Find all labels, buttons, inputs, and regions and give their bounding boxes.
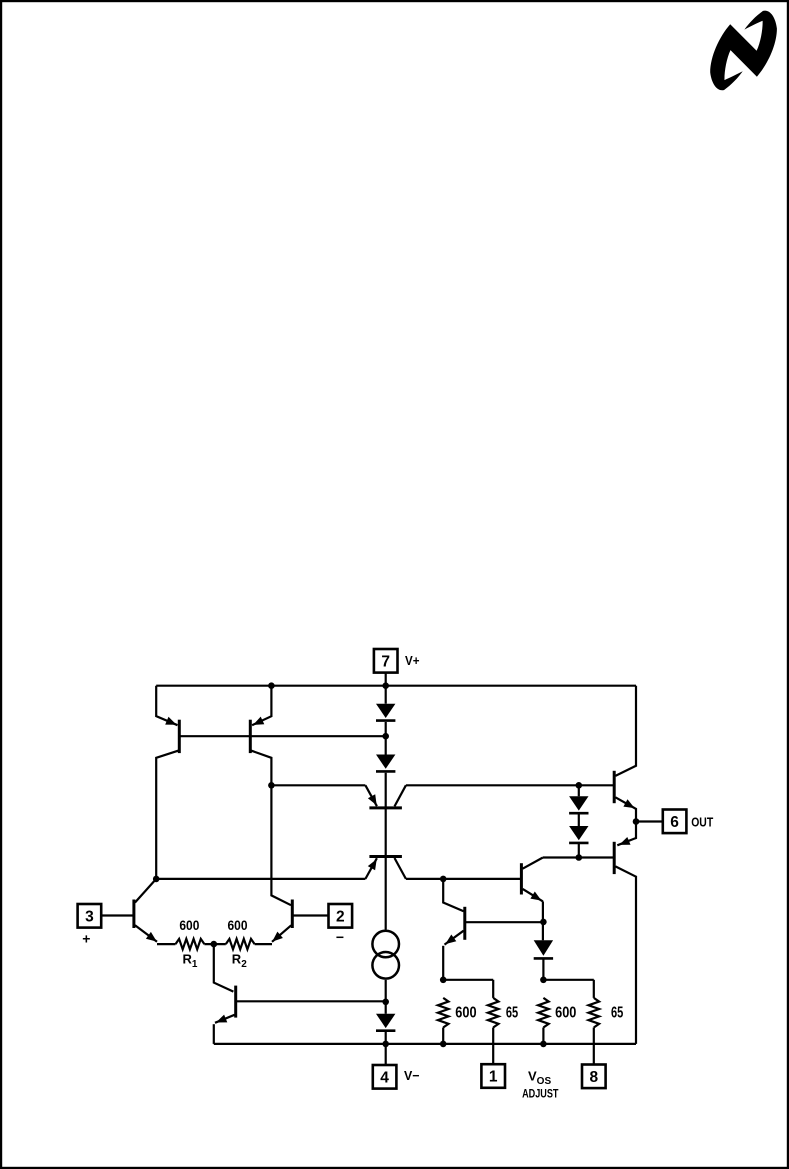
wire R6 through rail to pin 8 <box>593 1028 595 1065</box>
node D6 bottom / base wire <box>576 854 583 861</box>
diode D5 <box>569 796 588 810</box>
wire node to R4 top <box>443 979 493 981</box>
node Q8 collector junction <box>440 876 447 883</box>
svg-text:4: 4 <box>380 1069 389 1086</box>
wire Q9 base to current source node <box>237 1000 386 1002</box>
svg-text:VOS: VOS <box>528 1069 551 1088</box>
wire R4 through rail to pin 1 <box>492 1028 494 1065</box>
current source I1 (two circles) <box>372 931 399 958</box>
transistor Q8 (NPN, faces left) <box>463 907 466 940</box>
node Q2 collector / Q5 emitter wire <box>268 782 275 789</box>
wire D1 to node <box>385 722 387 755</box>
wire tap down to Q9 <box>214 944 234 992</box>
pin 4 box (V-) <box>373 1065 397 1089</box>
svg-text:2: 2 <box>336 908 345 925</box>
transistor Q7 (driver NPN) <box>520 863 523 894</box>
pin 6 box (OUT) <box>663 810 687 834</box>
diode D2 <box>376 755 395 769</box>
node diode D5 top <box>576 782 583 789</box>
transistor Q1 (left PNP current mirror) <box>178 720 181 753</box>
svg-text:600: 600 <box>179 917 199 933</box>
svg-text:+: + <box>82 931 90 947</box>
svg-text:65: 65 <box>611 1005 623 1022</box>
transistor Q10 (output NPN) <box>613 771 616 803</box>
svg-text:V+: V+ <box>405 653 420 668</box>
node R5 / rail <box>540 1041 547 1048</box>
node Q9 base / D3 anode <box>382 999 389 1006</box>
wire current source to node <box>385 980 387 1014</box>
wire Q4 base to pin 2 <box>292 914 328 916</box>
wire D6 to node <box>578 844 580 858</box>
transistor Q11 (output PNP) <box>613 842 616 874</box>
wire output node to pin 6 <box>636 820 663 822</box>
wire Q6 collector to Q7 base <box>406 878 520 880</box>
transistor Q6 (bottom middle PNP) <box>369 855 402 858</box>
svg-text:65: 65 <box>506 1005 518 1022</box>
svg-text:600: 600 <box>555 1005 576 1022</box>
wire node to R6 top <box>543 979 593 981</box>
wire D5 to D6 <box>578 814 580 826</box>
svg-text:8: 8 <box>589 1069 598 1086</box>
node D1-D2 / base wire junction <box>382 733 389 740</box>
wire rail to pin 4 <box>385 1044 387 1065</box>
svg-text:V−: V− <box>404 1068 420 1083</box>
wire pin3 to Q3 base <box>101 914 134 916</box>
transistor Q9 (level shift NPN, faces left) <box>234 986 237 1018</box>
svg-text:1: 1 <box>489 1069 498 1086</box>
diode D4 <box>534 940 553 956</box>
wire R2 to Q4 emitter <box>255 943 272 945</box>
node Q8 emitter / R3 top <box>440 977 447 984</box>
transistor Q5 (top middle PNP) <box>369 806 402 809</box>
wire D5 anode to node <box>578 785 580 796</box>
node Q1 collector / Q3 collector <box>153 876 160 883</box>
resistor R5 600 <box>538 998 549 1028</box>
node junction pin7/top-rail <box>382 682 389 689</box>
svg-text:ADJUST: ADJUST <box>522 1089 558 1101</box>
svg-text:OUT: OUT <box>691 815 713 830</box>
wire Q5 emitter line <box>271 784 365 786</box>
svg-text:−: − <box>336 929 344 945</box>
resistor R2 600 <box>226 939 255 949</box>
National Semiconductor logo <box>710 11 777 91</box>
node R3 / rail <box>440 1041 447 1048</box>
wire Q5 collector to output base <box>406 784 614 786</box>
transistor Q3 (left input NPN) <box>132 900 135 929</box>
wire Q8 base to D4 node <box>466 921 543 923</box>
svg-text:R1: R1 <box>183 952 198 971</box>
resistor R4 65 <box>488 998 499 1028</box>
pin 8 box (Vos adjust) <box>582 1065 606 1089</box>
svg-text:R2: R2 <box>232 952 247 971</box>
wire Q7 collector to Q11 base <box>543 856 614 858</box>
node output <box>633 818 640 825</box>
wire R1 to R2 / tap node <box>204 943 225 945</box>
pin 2 box (inverting input) <box>329 904 353 928</box>
diode D6 <box>569 826 588 840</box>
top rail V+ wire <box>156 685 636 687</box>
resistor R1 600 <box>176 939 205 949</box>
pin 7 box (V+) <box>374 649 398 673</box>
wire Q6 emitter line to left side <box>156 878 365 880</box>
wire D3 to bottom rail <box>385 1032 387 1044</box>
wire D4 to node <box>542 959 544 980</box>
wire PNP base line to node <box>179 735 385 737</box>
node D3 / bottom rail <box>382 1041 389 1048</box>
svg-text:6: 6 <box>670 814 679 831</box>
transistor Q2 (right PNP current mirror) <box>249 720 252 753</box>
bottom rail V- wire <box>214 1043 636 1045</box>
wire Q2 collector down to node <box>250 750 271 785</box>
node Q7 emitter / D4 anode <box>540 919 547 926</box>
svg-text:7: 7 <box>381 653 390 670</box>
wire pin7 to top rail <box>385 673 387 704</box>
diode D1 <box>376 704 395 718</box>
resistor R3 600 <box>438 998 449 1028</box>
node top-rail/Q2 emitter <box>268 682 275 689</box>
svg-text:3: 3 <box>85 908 94 925</box>
pin 1 box (Vos adjust) <box>481 1064 505 1088</box>
wire D2 down through Q5/Q6 bases <box>385 773 387 930</box>
pin 3 box (non-inverting input) <box>78 904 102 928</box>
node D4 / R5 top <box>540 977 547 984</box>
diode D3 <box>376 1014 395 1028</box>
transistor Q4 (right input NPN) <box>291 900 294 929</box>
resistor R6 65 <box>589 998 600 1028</box>
wire node down to Q4 collector <box>271 785 291 905</box>
svg-text:600: 600 <box>455 1005 476 1022</box>
svg-text:600: 600 <box>228 917 248 933</box>
